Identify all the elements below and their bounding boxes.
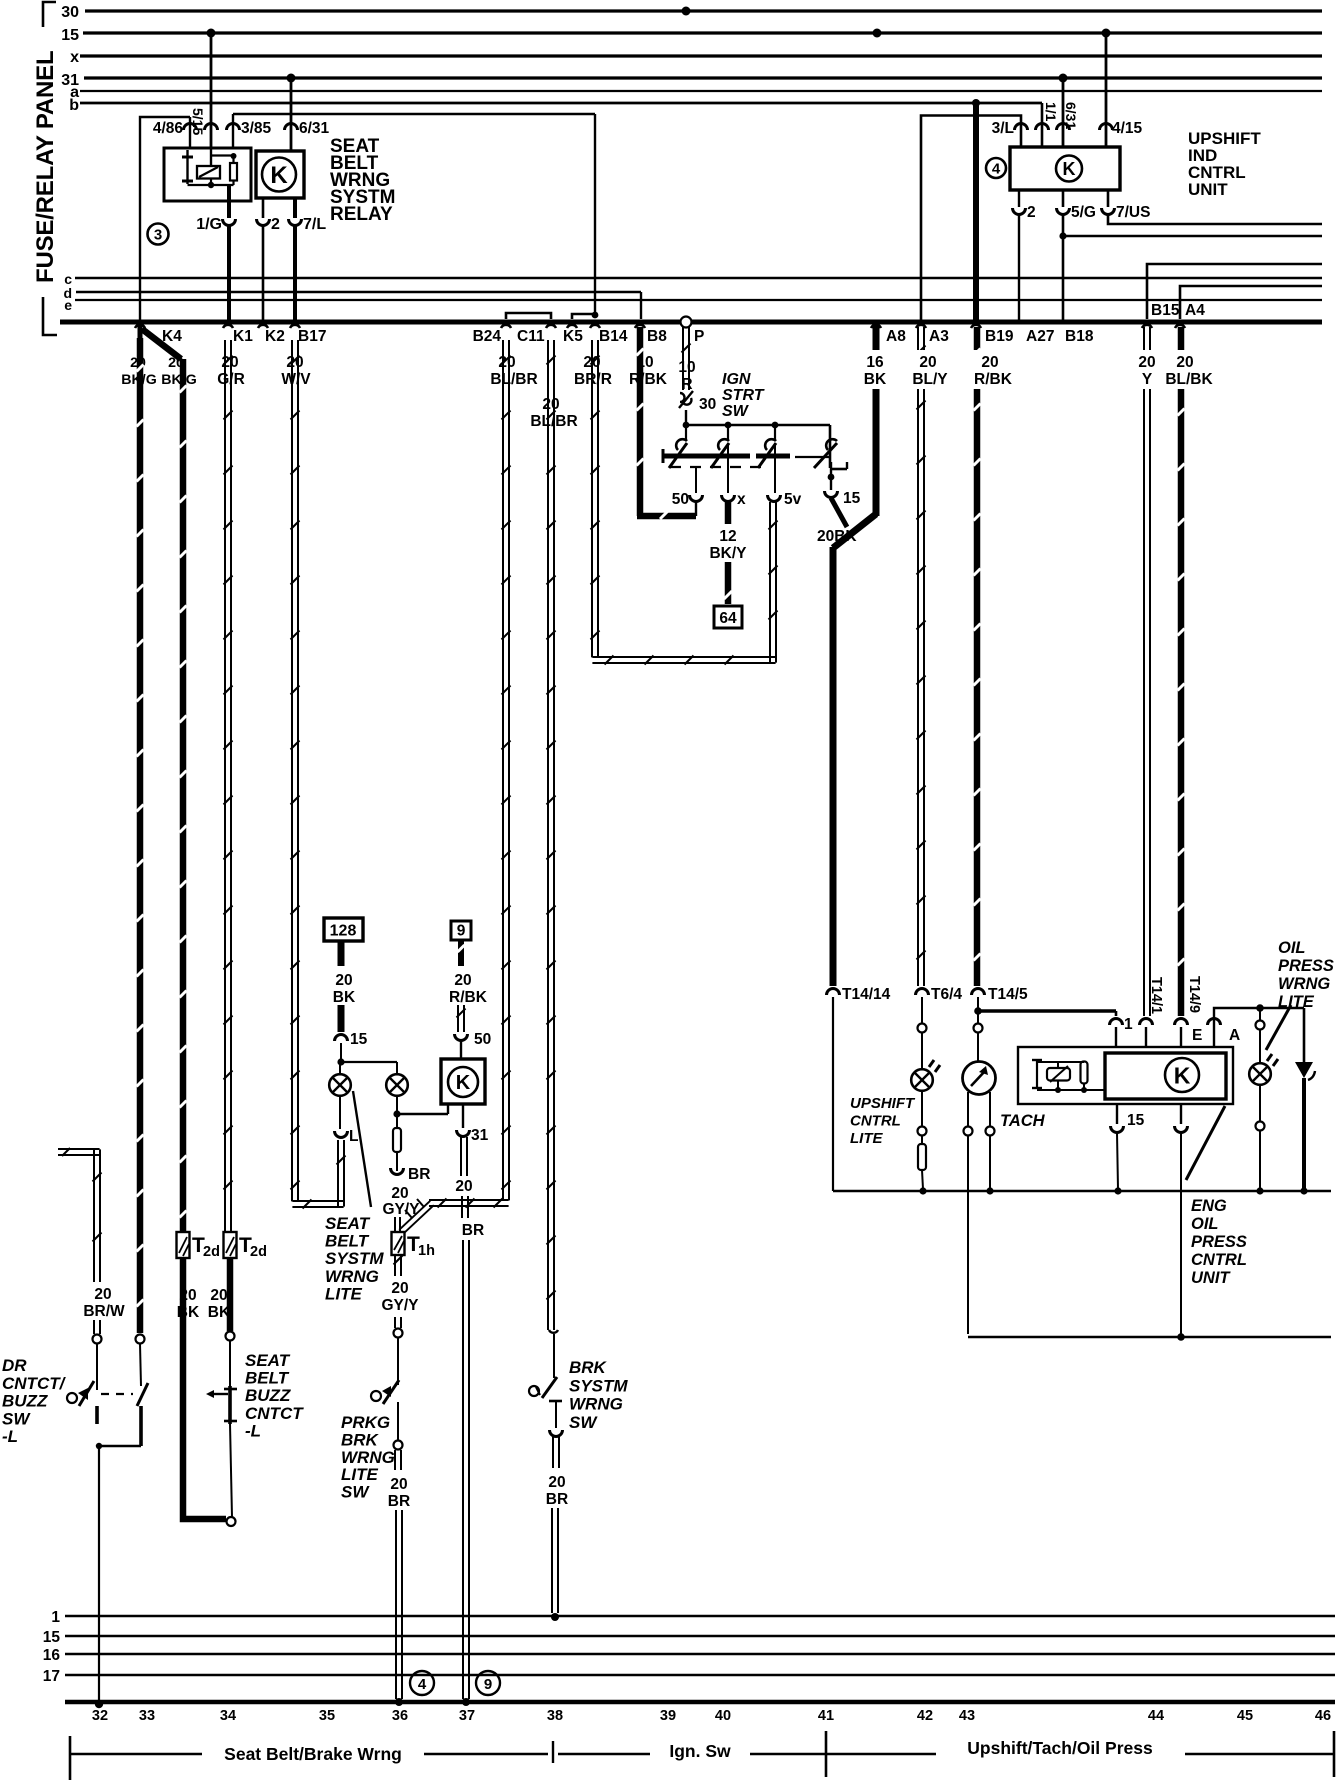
wire 20 R/BK (B19 to T14/5) bbox=[974, 327, 981, 986]
eng oil unit terminal E bottom bbox=[1175, 1104, 1188, 1341]
svg-text:5/15: 5/15 bbox=[190, 108, 206, 135]
svg-text:16: 16 bbox=[866, 354, 884, 371]
svg-text:50: 50 bbox=[672, 491, 689, 508]
label 20 Y bbox=[1138, 354, 1155, 388]
svg-text:B19: B19 bbox=[985, 328, 1014, 345]
wire 5/G to B18 and right edge bbox=[1059, 215, 1322, 320]
bus label B18 bbox=[1065, 328, 1094, 345]
svg-text:WRNG: WRNG bbox=[569, 1395, 623, 1414]
wire 20 BR brake sw to line 1 bbox=[546, 1437, 568, 1621]
svg-text:OIL: OIL bbox=[1278, 939, 1306, 957]
svg-text:K: K bbox=[1174, 1062, 1191, 1088]
tach right leg bbox=[986, 1092, 995, 1195]
terminal L bbox=[335, 1096, 359, 1145]
terminal A eng oil unit bbox=[1208, 1004, 1305, 1047]
terminal 1/1 bbox=[1036, 102, 1060, 130]
svg-text:20: 20 bbox=[498, 354, 515, 371]
svg-text:40: 40 bbox=[715, 1708, 731, 1724]
svg-text:SEAT: SEAT bbox=[245, 1351, 291, 1370]
seat belt lamp leader bbox=[353, 1091, 371, 1207]
wire label white backgrounds right group bbox=[862, 350, 1218, 389]
wire 20 BK from 128 bbox=[333, 941, 356, 1032]
svg-text:LITE: LITE bbox=[1278, 993, 1315, 1011]
wire 7/US to right edge bbox=[1108, 215, 1322, 224]
svg-text:31: 31 bbox=[471, 1127, 489, 1144]
svg-text:4/86: 4/86 bbox=[153, 120, 184, 137]
eng oil press cntrl unit box bbox=[1018, 1047, 1233, 1104]
junction line30/P bbox=[682, 7, 691, 16]
svg-text:b: b bbox=[69, 97, 79, 114]
wire 20 BR (relay 31 to ground) bbox=[455, 1137, 484, 1706]
svg-text:TACH: TACH bbox=[1000, 1112, 1046, 1130]
wire 3/85 via corner to K5 bridge bbox=[233, 114, 595, 316]
svg-text:B18: B18 bbox=[1065, 328, 1094, 345]
bus terminal K1 bbox=[223, 325, 253, 345]
svg-text:BR: BR bbox=[388, 1493, 410, 1510]
svg-text:BELT: BELT bbox=[245, 1369, 290, 1388]
svg-text:CNTCT: CNTCT bbox=[245, 1404, 304, 1423]
wire 10 R (P to ign sw 30) bbox=[682, 327, 691, 390]
oil press warning lamp bbox=[1249, 1054, 1278, 1085]
svg-text:37: 37 bbox=[459, 1708, 475, 1724]
wire 20 BR/W stub bbox=[58, 1148, 102, 1282]
line d corner to B8 bbox=[640, 292, 642, 319]
bus terminal C11 bbox=[517, 325, 556, 345]
svg-text:PRKG: PRKG bbox=[341, 1413, 390, 1432]
label 20 BK left bbox=[177, 1287, 200, 1321]
svg-text:BK/Y: BK/Y bbox=[709, 545, 747, 562]
bus terminal K5 bbox=[563, 325, 583, 345]
terminal T14/9 E bbox=[1175, 976, 1203, 1047]
svg-text:41: 41 bbox=[818, 1708, 834, 1724]
svg-text:46: 46 bbox=[1315, 1708, 1331, 1724]
ign sw terminal 50 bbox=[672, 467, 703, 508]
eng oil unit leader bbox=[1186, 1106, 1225, 1180]
line c bbox=[64, 271, 1322, 287]
wire 5/15 from line 15 bbox=[210, 33, 213, 148]
bus terminal B24 bbox=[473, 325, 511, 345]
svg-text:BR: BR bbox=[546, 1491, 568, 1508]
terminal 15 seat belt lamp bbox=[335, 1031, 368, 1048]
svg-text:50: 50 bbox=[474, 1031, 491, 1048]
bus line b bbox=[69, 97, 1042, 114]
ign strt sw label bbox=[722, 371, 765, 420]
svg-text:9: 9 bbox=[484, 1676, 492, 1693]
seat belt buzz contact -L bbox=[206, 1341, 237, 1517]
terminal 50 relay bbox=[455, 1031, 492, 1059]
svg-text:BK: BK bbox=[177, 1304, 200, 1321]
svg-text:L: L bbox=[349, 1128, 358, 1145]
svg-text:K5: K5 bbox=[563, 328, 583, 345]
connector T2d right bbox=[224, 1232, 267, 1260]
terminal 3/L bbox=[992, 120, 1028, 137]
svg-text:2: 2 bbox=[1027, 204, 1036, 221]
ign sw key symbol bbox=[828, 462, 847, 490]
svg-text:BK: BK bbox=[208, 1304, 231, 1321]
bus line 31 bbox=[61, 72, 1322, 89]
wire line b corner to 1/1 bbox=[1041, 103, 1044, 147]
svg-text:A4: A4 bbox=[1185, 302, 1205, 319]
upshift cntrl lite label bbox=[850, 1095, 916, 1147]
eng oil unit K symbol bbox=[1165, 1058, 1199, 1092]
svg-text:E: E bbox=[1192, 1027, 1202, 1044]
ign sw contacts bbox=[669, 425, 837, 468]
section ruler bbox=[70, 1731, 1334, 1780]
wire 20 BK/G branch diagonal at K4 bbox=[142, 329, 181, 359]
wire 20 GY/Y below T1h bbox=[381, 1255, 419, 1385]
svg-text:33: 33 bbox=[139, 1708, 155, 1724]
svg-text:LITE: LITE bbox=[850, 1130, 883, 1147]
svg-text:K: K bbox=[270, 162, 288, 189]
terminal 6/31 upshift bbox=[1057, 102, 1080, 130]
bus terminal A4 bbox=[1175, 302, 1205, 328]
svg-text:17: 17 bbox=[43, 1668, 60, 1685]
junction line b/B19 bbox=[972, 99, 980, 107]
line d bbox=[63, 285, 641, 301]
fuse box 128 bbox=[324, 918, 363, 941]
svg-text:20: 20 bbox=[548, 1474, 565, 1491]
wire 2 to A27 bbox=[1018, 215, 1020, 320]
dr cntct/buzz sw -L bbox=[67, 1381, 148, 1708]
junction line31/6-31 upshift bbox=[1059, 74, 1068, 83]
inline connector buzz bottom bbox=[227, 1517, 236, 1526]
svg-text:5v: 5v bbox=[784, 491, 802, 508]
svg-text:SYSTM: SYSTM bbox=[325, 1249, 384, 1268]
svg-text:W/V: W/V bbox=[281, 371, 311, 388]
svg-text:PRESS: PRESS bbox=[1191, 1233, 1247, 1251]
svg-text:2d: 2d bbox=[250, 1244, 267, 1260]
svg-text:CNTCT/: CNTCT/ bbox=[2, 1374, 67, 1393]
svg-text:SYSTM: SYSTM bbox=[569, 1376, 628, 1395]
label 20 G/R bbox=[217, 354, 245, 388]
eng oil unit terminal 15 bbox=[1111, 1104, 1145, 1195]
terminal 2 upshift bbox=[1013, 190, 1036, 221]
svg-text:SW: SW bbox=[722, 403, 750, 420]
svg-text:K4: K4 bbox=[162, 328, 182, 345]
label 20 BK/G left bbox=[121, 355, 156, 388]
junction line15/relay 5-15 bbox=[207, 29, 216, 38]
bus line x bbox=[70, 49, 1322, 66]
svg-text:T14/1: T14/1 bbox=[1148, 977, 1164, 1014]
wire 20 BK (T2d to buzzer contact elbow) bbox=[183, 1258, 226, 1519]
svg-text:6/31: 6/31 bbox=[299, 120, 330, 137]
svg-text:T14/14: T14/14 bbox=[842, 986, 891, 1003]
svg-text:B24: B24 bbox=[473, 328, 502, 345]
ign sw mechanical link dashed bbox=[670, 466, 764, 468]
eng oil unit internals bbox=[1032, 1060, 1105, 1093]
terminal 5/15 bbox=[190, 108, 218, 135]
svg-text:20: 20 bbox=[454, 972, 471, 989]
svg-text:20: 20 bbox=[94, 1286, 111, 1303]
svg-text:20: 20 bbox=[179, 1287, 196, 1304]
svg-text:38: 38 bbox=[547, 1708, 563, 1724]
bottom line 15 bbox=[43, 1629, 1335, 1646]
bus terminal K2 bbox=[258, 325, 285, 345]
bus line 15 bbox=[61, 27, 1322, 44]
svg-text:43: 43 bbox=[959, 1708, 975, 1724]
panel bracket top bbox=[43, 2, 56, 27]
terminal 2 relay bbox=[257, 198, 281, 233]
bus terminal A3 bbox=[916, 325, 949, 345]
svg-text:K2: K2 bbox=[265, 328, 285, 345]
tach chain top bbox=[974, 1014, 983, 1062]
label 20 BL/BR C11 bbox=[530, 396, 577, 430]
svg-text:UNIT: UNIT bbox=[1191, 1269, 1231, 1287]
svg-text:CNTRL: CNTRL bbox=[1191, 1251, 1247, 1269]
diode branch bbox=[1295, 1008, 1315, 1195]
wire T14/5 junction to eng oil unit 1 bbox=[974, 997, 1116, 1016]
label 20 BL/BR B24 bbox=[490, 354, 537, 388]
junction line15/4-15 bbox=[1102, 29, 1111, 38]
terminal 31 relay bbox=[457, 1104, 489, 1144]
bus label A27 bbox=[1026, 328, 1054, 345]
svg-text:B17: B17 bbox=[298, 328, 326, 345]
svg-text:1: 1 bbox=[51, 1609, 60, 1626]
junction line15/A8 bbox=[873, 29, 882, 38]
bus terminal B14 bbox=[590, 325, 628, 345]
bus terminal B19 bbox=[971, 325, 1014, 345]
wire 12 BK/Y (x to fuse 64) bbox=[709, 502, 747, 604]
svg-text:Seat Belt/Brake Wrng: Seat Belt/Brake Wrng bbox=[224, 1744, 402, 1764]
svg-text:SW: SW bbox=[341, 1483, 370, 1502]
svg-text:7/L: 7/L bbox=[303, 216, 326, 233]
svg-text:SEAT: SEAT bbox=[325, 1214, 371, 1233]
svg-text:BK: BK bbox=[333, 989, 356, 1006]
svg-text:20BK: 20BK bbox=[817, 528, 857, 545]
dual brk wrng relay box bbox=[441, 1059, 485, 1104]
wire 20 BR/R (B14 down, U to ign sw 5v) bbox=[591, 340, 778, 665]
svg-text:20: 20 bbox=[542, 396, 559, 413]
svg-text:128: 128 bbox=[330, 923, 357, 940]
svg-text:P: P bbox=[694, 328, 704, 345]
wire 20 BL/BK (A4 to T14/9) bbox=[1178, 327, 1185, 1016]
circled 4 bottom bbox=[410, 1671, 434, 1695]
svg-text:x: x bbox=[737, 491, 746, 508]
wire 20 R/BK from fuse 9 bbox=[449, 921, 488, 1032]
ground line upshift section bbox=[833, 1190, 1331, 1192]
tach gauge bbox=[963, 1062, 996, 1095]
dr cntct buzz sw label bbox=[2, 1356, 67, 1446]
svg-text:IGN: IGN bbox=[722, 371, 751, 388]
label 20 BK/G right bbox=[161, 355, 196, 388]
svg-text:K1: K1 bbox=[233, 328, 253, 345]
prkg brk wrng lite sw bbox=[371, 1380, 403, 1450]
svg-text:Ign. Sw: Ign. Sw bbox=[669, 1741, 731, 1761]
ign sw terminal 15 bbox=[825, 490, 861, 507]
svg-text:20: 20 bbox=[1138, 354, 1155, 371]
wire K4 riser to 4/86 bbox=[140, 117, 190, 322]
wire 7/L to B17 bbox=[293, 226, 297, 322]
dual brk resistor to BR bbox=[391, 1117, 431, 1183]
prkg brk wrng lite sw label bbox=[341, 1413, 395, 1502]
svg-text:4: 4 bbox=[992, 161, 1001, 178]
bottom line 16 bbox=[43, 1647, 1335, 1664]
relay coil box bbox=[164, 148, 251, 201]
svg-text:BRK: BRK bbox=[569, 1358, 608, 1377]
terminal 7/US bbox=[1102, 190, 1151, 221]
svg-text:15: 15 bbox=[43, 1629, 61, 1646]
svg-text:A27: A27 bbox=[1026, 328, 1054, 345]
svg-text:CNTRL: CNTRL bbox=[850, 1112, 901, 1129]
ign sw top bar bbox=[683, 410, 830, 468]
svg-text:7/US: 7/US bbox=[1116, 204, 1150, 221]
wire 2 to K2 bbox=[262, 226, 265, 322]
svg-text:44: 44 bbox=[1148, 1708, 1164, 1724]
svg-text:K: K bbox=[456, 1072, 471, 1094]
label 20 GY/Y upper bbox=[382, 1185, 420, 1218]
seat belt systm wrng lite label bbox=[325, 1214, 384, 1303]
circled 4 bbox=[986, 158, 1006, 178]
label 20 W/V bbox=[281, 354, 311, 388]
svg-text:LITE: LITE bbox=[341, 1465, 378, 1484]
svg-text:3: 3 bbox=[154, 227, 162, 244]
bus terminal B15 bbox=[1142, 302, 1180, 328]
ign sw terminal 5v bbox=[768, 443, 802, 508]
svg-text:1/1: 1/1 bbox=[1043, 102, 1059, 122]
wire 20 BK/G right (K4 branch to T2d) bbox=[180, 359, 187, 1232]
brake systm wrng sw bbox=[529, 1330, 563, 1437]
svg-text:BR/W: BR/W bbox=[83, 1303, 125, 1320]
svg-text:ENG: ENG bbox=[1191, 1197, 1227, 1215]
svg-text:64: 64 bbox=[719, 610, 737, 627]
label 10 R bbox=[678, 359, 695, 393]
upshift ind cntrl unit box bbox=[1010, 147, 1120, 190]
terminal 6/31 bbox=[285, 120, 330, 137]
svg-text:15: 15 bbox=[61, 27, 79, 44]
svg-text:R/BK: R/BK bbox=[449, 989, 488, 1006]
wire T14/14 to ground line bbox=[832, 997, 834, 1191]
relay coil internals bbox=[182, 148, 237, 188]
svg-text:BR: BR bbox=[408, 1166, 430, 1183]
svg-text:Y: Y bbox=[1142, 371, 1153, 388]
seat belt systm wrng lamp bbox=[329, 1064, 351, 1096]
bus terminal P bbox=[681, 317, 705, 346]
label 20 BK right bbox=[208, 1287, 231, 1321]
svg-text:SW: SW bbox=[569, 1413, 598, 1432]
wire 20 Y (B15 to T14/1) bbox=[1144, 327, 1150, 1016]
svg-text:20: 20 bbox=[391, 1280, 408, 1297]
label 20 BL/BK bbox=[1165, 354, 1213, 388]
wire stub into T1h bbox=[395, 1217, 400, 1232]
svg-text:BELT: BELT bbox=[325, 1232, 370, 1251]
svg-text:20: 20 bbox=[391, 1185, 408, 1202]
label 20 BR/R bbox=[574, 354, 612, 388]
relay label bbox=[330, 136, 395, 225]
svg-text:BL/Y: BL/Y bbox=[912, 371, 948, 388]
svg-text:3/L: 3/L bbox=[992, 120, 1014, 137]
svg-text:BL/BR: BL/BR bbox=[490, 371, 537, 388]
svg-text:1: 1 bbox=[1124, 1016, 1133, 1033]
tach left leg to lower ground line bbox=[964, 1092, 1332, 1337]
svg-text:GY/Y: GY/Y bbox=[382, 1201, 420, 1218]
wire B15 feeder from right edge bbox=[1147, 264, 1322, 319]
svg-text:LITE: LITE bbox=[325, 1284, 362, 1303]
svg-text:4/15: 4/15 bbox=[1112, 120, 1143, 137]
bus line a bbox=[70, 84, 1322, 101]
terminal 3/85 bbox=[227, 120, 272, 137]
svg-text:-L: -L bbox=[245, 1421, 261, 1440]
bus terminal K4 bbox=[135, 325, 182, 345]
label 20 R/BK B19 bbox=[974, 354, 1013, 388]
wire 20 BK (T2d to seat belt buzz contact) bbox=[227, 1258, 234, 1331]
ign sw thick bar bbox=[663, 449, 830, 463]
svg-text:PRESS: PRESS bbox=[1278, 957, 1334, 975]
svg-text:45: 45 bbox=[1237, 1708, 1253, 1724]
relay contact box K bbox=[256, 151, 304, 198]
svg-text:9: 9 bbox=[457, 923, 466, 940]
seat belt buzz cntct label bbox=[245, 1351, 304, 1440]
wire 6/31 from line 31 bbox=[290, 78, 293, 151]
svg-text:3/85: 3/85 bbox=[241, 120, 272, 137]
svg-text:BL/BK: BL/BK bbox=[1165, 371, 1213, 388]
svg-text:x: x bbox=[70, 49, 79, 66]
brk systm wrng sw label bbox=[569, 1358, 628, 1432]
svg-text:UPSHIFT: UPSHIFT bbox=[850, 1095, 916, 1112]
svg-text:34: 34 bbox=[220, 1708, 236, 1724]
svg-text:30: 30 bbox=[61, 4, 79, 21]
svg-text:1/G: 1/G bbox=[196, 216, 222, 233]
label 10 R/BK bbox=[629, 354, 668, 388]
svg-text:STRT: STRT bbox=[722, 387, 765, 404]
bus line 30 bbox=[61, 4, 1322, 21]
fuse panel bus bar bbox=[60, 320, 1322, 325]
svg-text:DR: DR bbox=[2, 1356, 27, 1375]
svg-text:WRNG: WRNG bbox=[341, 1448, 395, 1467]
oil press wrng lite label bbox=[1278, 939, 1334, 1011]
terminal 7/L bbox=[289, 198, 327, 233]
label 16 BK bbox=[864, 354, 887, 388]
junction line31/6-31 relay bbox=[287, 74, 296, 83]
svg-text:42: 42 bbox=[917, 1708, 933, 1724]
wire BR/W lower segment bbox=[93, 1320, 102, 1390]
svg-text:6/31: 6/31 bbox=[1063, 102, 1079, 129]
wire 20BK (ign sw 15 / A8 junction) bbox=[817, 325, 876, 986]
wire 20 W/V (B17 down and U to lamp terminal L) bbox=[291, 340, 346, 1209]
wire 4/15 from line 15 bbox=[1105, 33, 1108, 147]
ign sw terminal x bbox=[722, 443, 747, 508]
upshift cntrl lite chain bbox=[918, 997, 927, 1069]
svg-text:30: 30 bbox=[699, 396, 716, 413]
svg-text:15: 15 bbox=[350, 1031, 368, 1048]
svg-text:1h: 1h bbox=[418, 1243, 435, 1259]
svg-text:GY/Y: GY/Y bbox=[381, 1297, 419, 1314]
svg-text:BK/G: BK/G bbox=[161, 372, 196, 388]
svg-text:4: 4 bbox=[418, 1676, 427, 1693]
inline connector on buzz wire bbox=[226, 1332, 235, 1341]
wire 20 BL/Y (A3 to T6/4) bbox=[917, 327, 926, 986]
svg-text:10: 10 bbox=[678, 359, 695, 376]
svg-text:-L: -L bbox=[2, 1427, 18, 1446]
wire A3 riser to 3/L bbox=[921, 116, 1021, 323]
bus terminal A8 bbox=[871, 325, 906, 345]
svg-text:20: 20 bbox=[390, 1476, 407, 1493]
terminal 4/15 bbox=[1100, 120, 1143, 137]
svg-text:B14: B14 bbox=[599, 328, 628, 345]
svg-text:Upshift/Tach/Oil Press: Upshift/Tach/Oil Press bbox=[967, 1738, 1153, 1758]
terminal T6/4 bbox=[916, 986, 963, 1003]
oil lamp lower chain bbox=[1256, 1085, 1265, 1195]
svg-text:FUSE/RELAY PANEL: FUSE/RELAY PANEL bbox=[32, 51, 59, 283]
svg-text:BUZZ: BUZZ bbox=[2, 1392, 48, 1411]
svg-text:32: 32 bbox=[92, 1708, 108, 1724]
upshift lamp lower chain with resistor bbox=[918, 1091, 927, 1195]
svg-text:5/G: 5/G bbox=[1071, 204, 1096, 221]
fuse box 64 bbox=[714, 606, 742, 628]
label 20 BL/Y bbox=[912, 354, 948, 388]
svg-text:36: 36 bbox=[392, 1708, 408, 1724]
oil press wrng lite chain bbox=[1256, 1008, 1265, 1062]
wire 1/G to K1 bbox=[227, 226, 231, 322]
